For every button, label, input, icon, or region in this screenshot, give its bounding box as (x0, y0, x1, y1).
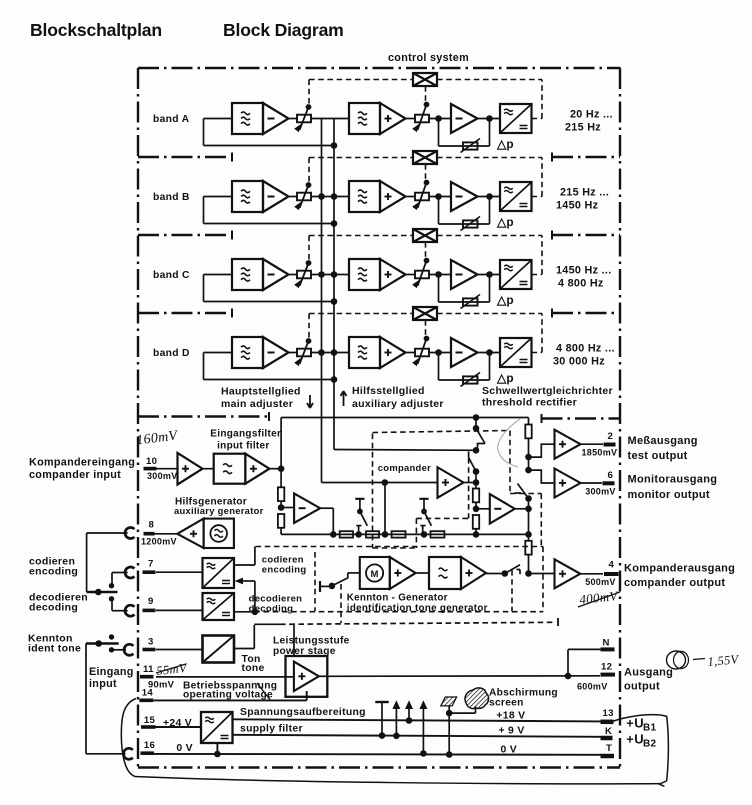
svg-text:output: output (624, 681, 660, 693)
svg-text:threshold rectifier: threshold rectifier (482, 397, 577, 409)
svg-text:supply filter: supply filter (240, 724, 303, 735)
input filter block Eingangsfilter (202, 468, 213, 470)
svg-text:Hauptstellglied: Hauptstellglied (221, 386, 301, 398)
svg-text:+18 V: +18 V (496, 710, 525, 721)
svg-text:14: 14 (142, 688, 154, 699)
svg-text:band B: band B (153, 192, 190, 203)
svg-text:215 Hz: 215 Hz (565, 122, 601, 134)
band C second filter U10 (349, 259, 380, 290)
bus1 turn to compander line (322, 482, 438, 484)
Kennton output switch (486, 573, 505, 575)
band C dashed control loop (532, 274, 543, 276)
band A feedback loop with variable resistor (438, 119, 440, 147)
svg-text:N: N (603, 638, 610, 649)
power stage box with amplifier (286, 656, 328, 697)
band A input filter U1 (232, 103, 263, 134)
band B second filter U6 (349, 181, 380, 212)
svg-text:500mV: 500mV (585, 577, 616, 587)
svg-text:decoding: decoding (249, 603, 294, 614)
svg-text:B2: B2 (643, 739, 657, 750)
Kennton ton level box (203, 636, 235, 663)
band A input wire from bus (204, 145, 335, 147)
encode switch for Kennton generator (319, 581, 321, 592)
outer frame right edge (619, 68, 621, 768)
pencil arc annotation near threshold rectifier output (498, 419, 520, 467)
band B wire to amplifier (429, 196, 451, 198)
T-switch right on bottom rail (419, 498, 428, 500)
aux generator output amplifier (points left) (155, 533, 178, 535)
+18V rail (233, 719, 601, 721)
test output amplifier (555, 430, 581, 459)
band B auxiliary adjuster (406, 196, 416, 198)
supply stub arrow to 0V (420, 750, 427, 757)
compander vertical from line to rail (384, 483, 386, 535)
svg-text:auxiliary adjuster: auxiliary adjuster (352, 398, 444, 410)
connector socket pin 8 (125, 528, 134, 539)
svg-text:decoding: decoding (29, 602, 78, 614)
frame divider y=417 left segment (138, 415, 269, 417)
svg-text:11: 11 (143, 664, 154, 675)
band separator right 3 (552, 312, 620, 314)
switch to feedback amp output (518, 484, 529, 499)
monitor output amplifier (555, 469, 581, 498)
svg-text:Schwellwertgleichrichter: Schwellwertgleichrichter (482, 385, 613, 397)
wire to test output amplifier (529, 444, 555, 457)
svg-text:+ 9 V: + 9 V (499, 726, 525, 737)
compander forward amplifier (438, 467, 464, 498)
handwritten 400mV crossed out (579, 588, 620, 607)
supply stub with T-bar (379, 732, 386, 739)
Kennton selector contacts (86, 642, 119, 645)
svg-text:300mV: 300mV (585, 487, 616, 497)
svg-text:16: 16 (144, 740, 155, 751)
svg-text:1850mV: 1850mV (582, 448, 618, 458)
svg-text:0 V: 0 V (176, 743, 193, 754)
band B wire adjuster to bus (311, 196, 349, 198)
supply filter box (201, 712, 233, 743)
svg-text:△p: △p (496, 137, 514, 151)
svg-text:input filter: input filter (217, 441, 269, 452)
supply stub arrow to +9V (393, 733, 400, 740)
band D wire to amplifier (429, 352, 451, 354)
band C main adjuster (289, 274, 298, 276)
compander feedback amplifier (476, 508, 490, 510)
svg-text:auxiliary generator: auxiliary generator (174, 505, 264, 516)
band D control multiplier X-box (413, 307, 437, 320)
handwritten annotation 160mV (136, 428, 180, 448)
outer control-system frame top (138, 67, 621, 69)
svg-text:30 000 Hz: 30 000 Hz (553, 356, 605, 368)
band separator right 2 (552, 234, 620, 236)
connector socket pin 9 (125, 605, 134, 616)
riser from input filter to switch line (280, 418, 282, 469)
band A second filter U2 (349, 103, 380, 134)
input amplifier (157, 468, 178, 470)
band C feedback loop with variable resistor (438, 275, 440, 303)
connector socket input (123, 748, 132, 759)
svg-text:input: input (89, 678, 117, 690)
0V rail (154, 753, 601, 756)
svg-text:△p: △p (496, 371, 514, 385)
handwritten wire from terminal 13 around bottom to terminal 14 (614, 715, 669, 781)
outer frame bottom edge (138, 766, 620, 768)
+9V rail (233, 735, 601, 737)
band B main adjuster (289, 196, 298, 198)
connector socket pin 3 (124, 644, 133, 655)
svg-text:operating voltage: operating voltage (183, 690, 273, 701)
band C wire to amplifier (429, 274, 451, 276)
band B dashed control loop (532, 196, 543, 198)
svg-text:10: 10 (146, 456, 157, 467)
dashed ident tone route to output stage (280, 622, 556, 624)
band B input filter U5 (232, 181, 263, 212)
band D input filter U13 (232, 337, 263, 368)
band C wire adjuster to bus (311, 274, 349, 276)
svg-text:identification tone generato: identification tone generator (347, 603, 488, 614)
svg-text:15: 15 (144, 715, 156, 726)
svg-text:B1: B1 (643, 723, 657, 734)
svg-text:Hilfsstellglied: Hilfsstellglied (352, 385, 425, 397)
band B threshold rectifier (500, 182, 532, 211)
svg-text:encoding: encoding (262, 565, 307, 576)
band D feedback loop with variable resistor (438, 353, 440, 381)
connector socket pin 7 (125, 567, 134, 578)
shield blob symbol (465, 688, 489, 709)
svg-text:main adjuster: main adjuster (221, 398, 293, 410)
bus junction dots (318, 349, 325, 356)
svg-text:Monitorausgang: Monitorausgang (628, 474, 718, 486)
svg-text:4: 4 (609, 560, 615, 571)
svg-text:Kompanderausgang: Kompanderausgang (624, 563, 735, 575)
codieren output wire (234, 564, 255, 566)
svg-text:4 800 Hz: 4 800 Hz (558, 278, 604, 290)
svg-text:8: 8 (149, 520, 155, 531)
T-switch left on bottom rail (355, 498, 364, 500)
band C input filter U9 (232, 259, 263, 290)
outer frame left edge (137, 68, 139, 768)
band D dashed control loop (532, 352, 543, 354)
band A threshold rectifier (500, 104, 532, 133)
compander bottom rail with resistors (281, 533, 528, 535)
band A control multiplier X-box (413, 73, 437, 86)
bus 2 vertical (band inputs) (333, 119, 335, 450)
shield hatch symbol (441, 697, 457, 706)
band separator right 1 (552, 156, 620, 158)
handwritten output transducer circle and 1,55V (667, 651, 686, 669)
band A wire to amplifier (429, 118, 451, 120)
svg-text:compander input: compander input (29, 469, 121, 481)
svg-text:K: K (605, 726, 612, 737)
svg-text:9: 9 (148, 596, 154, 607)
band B feedback loop with variable resistor (438, 197, 440, 225)
svg-text:△p: △p (496, 293, 514, 307)
bus junction dots (318, 193, 325, 200)
svg-text:1,55V: 1,55V (707, 652, 740, 669)
bus 1 vertical (adjuster outputs) (321, 119, 323, 483)
band separator left 2 (138, 234, 232, 236)
svg-text:300mV: 300mV (147, 471, 178, 481)
svg-text:compander output: compander output (624, 577, 725, 589)
svg-text:215 Hz ...: 215 Hz ... (560, 187, 609, 199)
svg-text:Spannungsaufbereitung: Spannungsaufbereitung (240, 707, 366, 718)
svg-text:1450 Hz: 1450 Hz (556, 200, 599, 212)
band separator left 3 (138, 312, 232, 314)
bus junction dots (318, 271, 325, 278)
svg-text:0 V: 0 V (501, 745, 518, 756)
band C control multiplier X-box (413, 229, 437, 242)
band A dashed control loop (532, 118, 543, 120)
svg-text:band A: band A (153, 114, 190, 125)
Kennton generator filter (416, 572, 429, 574)
svg-text:control system: control system (388, 52, 469, 64)
svg-text:Block Diagram: Block Diagram (223, 20, 344, 40)
Eingang connector wire (85, 644, 87, 754)
band A wire adjuster to bus (311, 118, 349, 120)
arrow into codieren box (from decodieren) (240, 580, 255, 582)
svg-text:Blockschaltplan: Blockschaltplan (30, 20, 162, 40)
svg-text:△p: △p (496, 215, 514, 229)
codieren level converter box (203, 558, 235, 588)
compander dashed enclosure (372, 434, 374, 549)
svg-text:2: 2 (608, 431, 614, 442)
svg-text:M: M (370, 569, 378, 580)
band A auxiliary adjuster (406, 118, 416, 120)
svg-text:band D: band D (153, 348, 190, 359)
codieren-decodieren selector contacts (87, 591, 118, 594)
band D main adjuster (289, 352, 298, 354)
svg-text:13: 13 (603, 708, 614, 719)
resistor to compander output line (525, 541, 531, 555)
band D input wire from bus (204, 379, 335, 381)
svg-text:4 800 Hz ...: 4 800 Hz ... (556, 343, 615, 355)
band A main adjuster (289, 118, 298, 120)
switch column x=476 (475, 418, 477, 429)
bus2 turn to switch line y=449.5 (334, 449, 476, 452)
svg-text:ident tone: ident tone (28, 643, 81, 655)
svg-text:encoding: encoding (29, 566, 78, 578)
svg-text:Eingang: Eingang (89, 666, 134, 678)
svg-text:1200mV: 1200mV (141, 537, 177, 547)
svg-text:12: 12 (601, 662, 612, 673)
label Hilfsstellglied auxiliary adjuster (341, 391, 347, 406)
band B amplifier U7 (451, 182, 478, 211)
Kennton generator oscillator M (360, 557, 390, 589)
svg-text:test output: test output (628, 450, 688, 462)
compander output amplifier (529, 573, 555, 575)
band C threshold rectifier (500, 260, 532, 289)
band B control multiplier X-box (413, 151, 437, 164)
svg-text:compander: compander (378, 462, 431, 473)
band A amplifier U3 (451, 104, 478, 133)
band D amplifier U15 (451, 338, 478, 367)
svg-text:tone: tone (242, 663, 265, 674)
aux generator oscillator box (204, 519, 234, 548)
Kennton generator dashed enclosure (256, 546, 544, 548)
band separator left 1 (138, 156, 232, 158)
decodieren level converter box (203, 593, 235, 620)
wire to monitor amplifier (529, 470, 555, 483)
band C input wire from bus (204, 301, 335, 303)
svg-text:screen: screen (489, 698, 524, 709)
signal line to power stage (156, 676, 294, 678)
band D auxiliary adjuster (406, 352, 416, 354)
svg-text:monitor output: monitor output (628, 489, 710, 501)
decodieren output dot (234, 611, 255, 613)
ton output wire up to dashed route (234, 648, 254, 650)
svg-text:Eingangsfilter: Eingangsfilter (210, 429, 281, 440)
band D second filter U14 (349, 337, 380, 368)
svg-text:Ausgang: Ausgang (624, 667, 673, 679)
band D wire adjuster to bus (311, 352, 349, 354)
svg-text:600mV: 600mV (577, 682, 608, 692)
measuring column x=528.5 resistor from switch line (525, 425, 531, 439)
svg-text:Leistungsstufe: Leistungsstufe (273, 636, 350, 647)
svg-text:6: 6 (608, 470, 614, 481)
band C auxiliary adjuster (406, 274, 416, 276)
svg-text:3: 3 (148, 637, 154, 648)
svg-text:Kompandereingang: Kompandereingang (29, 457, 135, 469)
band D threshold rectifier (500, 338, 532, 367)
svg-text:20 Hz ...: 20 Hz ... (570, 109, 613, 121)
band B input wire from bus (204, 223, 335, 225)
svg-text:band C: band C (153, 270, 190, 281)
svg-text:T: T (606, 743, 612, 754)
svg-text:+U: +U (626, 732, 644, 747)
top switch line y=417.5 (281, 417, 528, 419)
svg-text:1450 Hz ...: 1450 Hz ... (556, 265, 612, 277)
supply stub arrow to +18V (406, 717, 413, 724)
band C amplifier U11 (451, 260, 478, 289)
resistor divider on input filter output (278, 487, 284, 501)
frame divider y=418 right segment (542, 417, 621, 419)
inverting amplifier of compander input (281, 507, 294, 509)
svg-text:7: 7 (148, 559, 154, 570)
svg-text:Kennton - Generator: Kennton - Generator (347, 593, 448, 604)
output line to terminal 12 (327, 675, 600, 678)
svg-text:Meßausgang: Meßausgang (628, 435, 698, 447)
